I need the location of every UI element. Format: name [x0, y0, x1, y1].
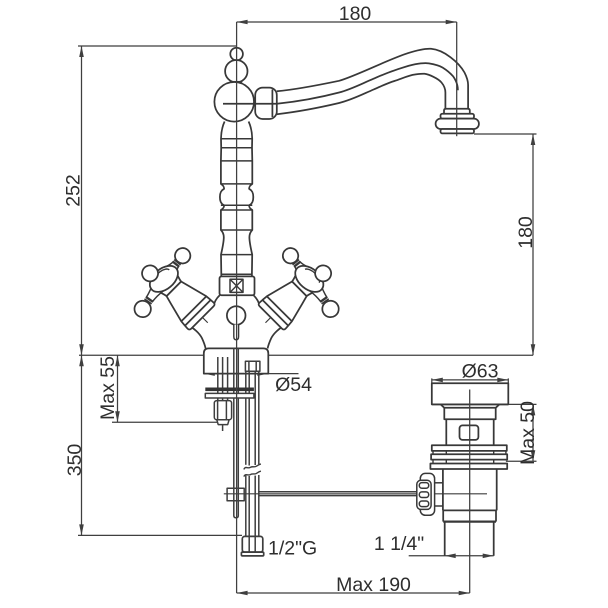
svg-text:1/2"G: 1/2"G [268, 538, 317, 560]
rod clamp tee [227, 488, 244, 501]
handle arm left bottom [143, 283, 164, 305]
valve body right [252, 264, 323, 335]
centerline faucet axis [236, 22, 238, 593]
dimension Max 55 [112, 355, 218, 422]
friction washer plate [430, 464, 507, 470]
finial large ball [225, 60, 247, 82]
handle ball right outer [313, 263, 334, 284]
deck line [79, 354, 204, 356]
handle ball left bottom [131, 298, 154, 321]
svg-text:Max 190: Max 190 [336, 574, 411, 596]
mounting washer lower [205, 393, 254, 398]
handle ball left top [172, 245, 194, 267]
svg-text:Max 50: Max 50 [517, 401, 539, 465]
spout outlet ring 3 [436, 119, 479, 129]
drain neck [444, 408, 495, 420]
bell outline left [214, 295, 220, 306]
spout outlet ring 4 [441, 129, 475, 133]
handle arm right top [291, 258, 308, 275]
valve body left [149, 264, 220, 335]
supply pipe [246, 371, 259, 551]
handle hub right [290, 261, 328, 297]
pivot knurled nut [417, 473, 443, 515]
base flange [204, 348, 268, 373]
dimension 252 left [78, 46, 237, 355]
rib connectors lower [433, 460, 494, 464]
dimension diameter 63 [432, 378, 509, 384]
pop-up lift stem [234, 325, 239, 340]
spout lower line [277, 74, 446, 114]
spout collar [255, 88, 277, 119]
spout outlet ring 2 [441, 114, 475, 119]
handle ball right top [280, 245, 302, 267]
spout outlet ring 1 [444, 109, 470, 114]
drain body upper [446, 419, 493, 445]
svg-text:350: 350 [64, 444, 86, 477]
pop-up lift knob [227, 306, 246, 325]
rib connectors upper [433, 451, 506, 454]
valve bonnet right [290, 274, 314, 298]
svg-text:180: 180 [339, 3, 372, 25]
body sphere [214, 82, 254, 122]
spout upper line [277, 49, 468, 109]
svg-text:Ø54: Ø54 [275, 374, 312, 396]
handle arm right bottom [310, 283, 331, 305]
handle hub left [145, 261, 183, 297]
drain flange [432, 383, 509, 404]
tailpiece tube [445, 522, 494, 556]
spout middle line [223, 63, 458, 104]
escutcheon box with cross [220, 276, 255, 295]
finial small ball [230, 48, 243, 61]
dimension 350 left [78, 355, 242, 535]
centerline drain axis [469, 390, 471, 594]
handle arm right outer [310, 270, 319, 283]
drain body lower [443, 469, 497, 510]
threaded shank lines [218, 357, 228, 431]
mounting nut [214, 401, 231, 425]
handle ball left outer [140, 263, 161, 284]
svg-text:252: 252 [63, 174, 85, 207]
supply inlet fitting [245, 361, 260, 371]
drain flange bevel [441, 404, 500, 407]
collar under finial [230, 82, 242, 84]
extension line spout axis [456, 22, 458, 136]
overflow window [460, 425, 479, 440]
tailpiece coupling [443, 510, 496, 521]
locking rib 1 [432, 445, 507, 451]
mounting washer dark [205, 388, 254, 392]
pop-up rod [234, 348, 239, 517]
svg-text:Ø63: Ø63 [462, 360, 499, 382]
bell outline right [254, 295, 260, 306]
locking rib 2 [431, 454, 507, 459]
dimension diameter 54 [204, 371, 299, 376]
handle arm left top [165, 258, 182, 275]
horizontal drain rod [224, 492, 487, 496]
dimension Max 190 [237, 591, 470, 596]
dimension 1 1/4 inch [409, 554, 494, 559]
handle ball right bottom [319, 298, 342, 321]
pipe break symbol [244, 464, 261, 477]
svg-text:1 1/4": 1 1/4" [374, 533, 424, 555]
dimension 180 right [474, 134, 537, 355]
svg-text:180: 180 [515, 216, 537, 249]
half inch G connector [241, 536, 263, 555]
dimension 180 top [237, 20, 457, 25]
svg-text:Max 55: Max 55 [97, 356, 119, 420]
column [220, 122, 253, 277]
handle arm left outer [154, 270, 163, 283]
valve bonnet left [159, 274, 183, 298]
dimension Max 50 [506, 404, 537, 461]
